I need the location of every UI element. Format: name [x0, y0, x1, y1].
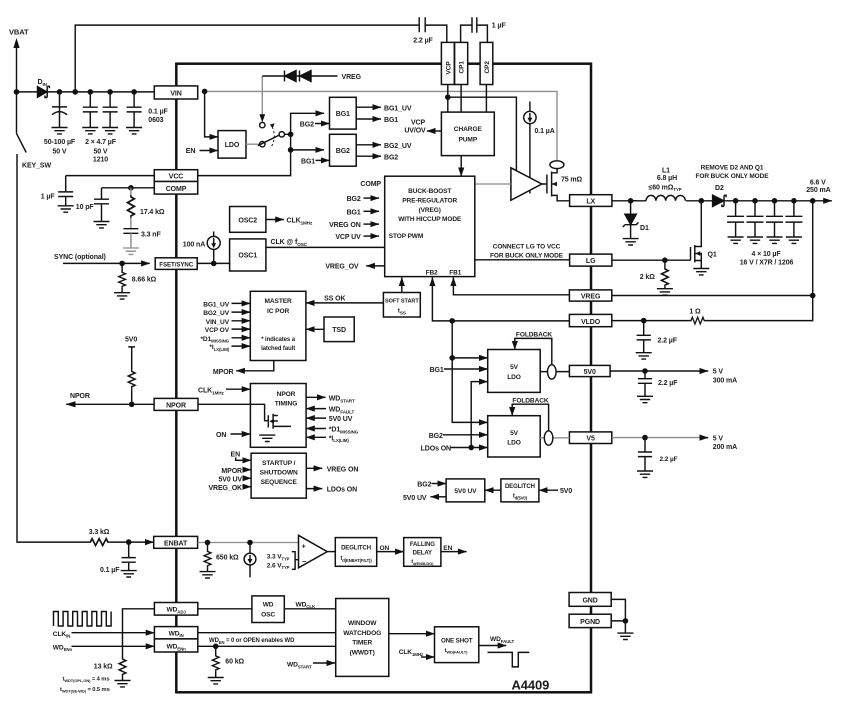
svg-text:VBAT: VBAT: [9, 28, 29, 37]
capacitor 1uF pump: [461, 17, 488, 42]
block SOFT START: [383, 293, 420, 318]
svg-text:BG1: BG1: [301, 158, 315, 165]
svg-text:5 V: 5 V: [713, 435, 724, 442]
svg-text:VCP: VCP: [411, 119, 426, 126]
svg-text:BG2: BG2: [347, 196, 361, 203]
svg-text:PGND: PGND: [580, 619, 600, 626]
wire WD IN to WWDT: [198, 632, 336, 634]
pin box PGND: [569, 614, 611, 627]
wire MPOR output: [236, 361, 274, 371]
wire D1 MISSING input (timing): [306, 428, 326, 430]
svg-text:BG1_UV: BG1_UV: [203, 301, 229, 308]
svg-text:BG1_UV: BG1_UV: [384, 105, 412, 112]
svg-text:VLDO: VLDO: [581, 319, 601, 326]
waveform WD FAULT pulse glyph: [488, 652, 530, 667]
svg-text:LDO: LDO: [507, 440, 521, 447]
svg-text:td(ENBAT(FILT)): td(ENBAT(FILT)): [340, 556, 372, 563]
svg-text:tWDT(OPL,ON) = 4 ms: tWDT(OPL,ON) = 4 ms: [63, 676, 110, 683]
svg-text:ON: ON: [380, 545, 390, 552]
wire foldback loop 1: [515, 338, 552, 364]
svg-text:6.6 V: 6.6 V: [810, 179, 826, 186]
svg-text:PRE-REGULATOR: PRE-REGULATOR: [402, 198, 457, 205]
svg-text:OSC: OSC: [261, 611, 275, 618]
capacitor 1uF VCC: [58, 176, 73, 206]
pin box WD IN: [154, 627, 197, 639]
wire NPOR out: [66, 403, 154, 405]
wire VREG to diodes: [262, 75, 337, 77]
pin box VLDO: [569, 314, 611, 326]
capacitor out 10uF a: [727, 201, 744, 237]
block LDO: [218, 131, 246, 159]
svg-text:SHUTDOWN: SHUTDOWN: [260, 470, 298, 477]
wire VCP to gate driver: [448, 97, 517, 171]
svg-text:COMP: COMP: [166, 186, 187, 193]
svg-text:8.66 kΩ: 8.66 kΩ: [132, 276, 157, 283]
svg-text:EN: EN: [186, 148, 196, 155]
wire VIN sense (gray): [205, 91, 557, 160]
zener diode D1: [625, 201, 636, 225]
switch KEY_SW: [17, 92, 89, 542]
ground (4.7uF a): [82, 128, 98, 134]
ground (bulk cap): [52, 128, 68, 134]
node LG pulldown: [662, 257, 668, 263]
block WD OSC: [252, 596, 284, 623]
svg-text:BG2: BG2: [336, 148, 350, 155]
svg-text:WITH HICCUP MODE: WITH HICCUP MODE: [398, 216, 462, 223]
svg-text:REMOVE D2 AND Q1: REMOVE D2 AND Q1: [701, 164, 764, 171]
wire VREG feed to switch (gray drop): [261, 76, 263, 115]
svg-text:250 mA: 250 mA: [806, 187, 830, 194]
block DEGLITCH (ENBAT): [335, 538, 376, 567]
wire SS OK to master POR: [306, 302, 384, 304]
svg-text:CHARGE: CHARGE: [454, 126, 483, 133]
wire ILX(LIM) input (timing): [306, 436, 326, 438]
ground (VLDO cap): [636, 353, 652, 359]
node comparator source: [247, 540, 253, 546]
svg-text:6.8 µH: 6.8 µH: [657, 175, 677, 182]
svg-text:LDOs ON: LDOs ON: [421, 446, 451, 453]
ground (1uF): [58, 206, 74, 212]
svg-text:FSET/SYNC: FSET/SYNC: [159, 262, 193, 269]
svg-text:ONE SHOT: ONE SHOT: [441, 637, 473, 644]
svg-text:A4409: A4409: [512, 678, 550, 693]
capacitor out 10uF c: [766, 201, 783, 237]
svg-text:5V0 UV: 5V0 UV: [218, 476, 242, 483]
wire supply branch to 5V LDO 1: [452, 357, 488, 359]
pin box NPOR: [154, 398, 198, 410]
ground (3.3nF): [123, 248, 139, 254]
resistor 1 Ohm: [690, 317, 706, 324]
waveform CLK IN glyph: [54, 612, 112, 627]
pin box 5V0: [569, 365, 610, 376]
svg-text:MASTER: MASTER: [264, 298, 292, 305]
svg-text:FB2: FB2: [426, 270, 438, 277]
svg-text:BG1: BG1: [347, 209, 361, 216]
wire 5V 200mA output (gray): [612, 437, 703, 439]
svg-text:200 mA: 200 mA: [713, 444, 737, 451]
svg-text:UV/OV: UV/OV: [404, 128, 426, 135]
svg-text:5V0 UV: 5V0 UV: [329, 416, 353, 423]
svg-text:VREG ON: VREG ON: [329, 222, 361, 229]
svg-text:2 kΩ: 2 kΩ: [640, 274, 655, 281]
node output caps: [733, 198, 816, 204]
ground (2k): [657, 289, 673, 295]
resistor NPOR pullup: [128, 370, 135, 388]
block WWDT: [336, 599, 389, 677]
svg-text:NPOR: NPOR: [70, 393, 90, 400]
capacitor 2.2uF 5V0: [638, 371, 652, 396]
svg-text:0.1 µA: 0.1 µA: [535, 128, 555, 135]
svg-text:−: −: [302, 557, 307, 566]
current source 100nA: [213, 232, 215, 237]
svg-text:TSD: TSD: [332, 327, 346, 334]
block 5V0 UV: [446, 479, 485, 502]
svg-text:60 kΩ: 60 kΩ: [225, 658, 244, 665]
comparator ENBAT: [299, 535, 328, 568]
wire VIN to LDO: [205, 91, 218, 136]
svg-text:SOFT START: SOFT START: [385, 299, 419, 305]
svg-text:SYNC (optional): SYNC (optional): [54, 254, 106, 261]
block BG1: [330, 97, 357, 129]
wire comparator to deglitch: [327, 551, 335, 553]
wire WD ADJ to WD OSC: [198, 608, 252, 610]
svg-text:16 V / X7R / 1206: 16 V / X7R / 1206: [740, 259, 794, 266]
svg-text:5V0 UV: 5V0 UV: [454, 488, 477, 495]
svg-text:L1: L1: [662, 167, 670, 174]
pin box VCC: [154, 170, 197, 182]
pin box GND: [569, 593, 611, 607]
wire SYNC to FSET: [63, 262, 150, 264]
pin box CP1 (vertical): [455, 42, 468, 84]
wire foldback loop 2: [512, 404, 548, 431]
node Q1 drain: [699, 198, 705, 204]
node 60k: [213, 644, 219, 650]
svg-text:tWDT(SE-WD) = 0.5 ms: tWDT(SE-WD) = 0.5 ms: [60, 687, 110, 694]
svg-text:(WWDT): (WWDT): [350, 649, 375, 656]
svg-text:PUMP: PUMP: [458, 137, 477, 144]
wire CLK IN to WD IN: [72, 632, 155, 634]
svg-text:BG2: BG2: [300, 121, 314, 128]
wire switch node to VCC: [198, 150, 291, 176]
block 5V LDO 1: [488, 350, 541, 393]
pin box VREG: [569, 290, 611, 301]
svg-text:NPOR: NPOR: [277, 391, 296, 398]
block NPOR TIMING: [250, 384, 306, 448]
svg-text:td(5V0): td(5V0): [513, 494, 528, 501]
junction dots input rail: [14, 89, 208, 95]
node VLDO cap: [641, 318, 647, 324]
pin box VCP (vertical): [441, 42, 454, 84]
svg-text:BG2: BG2: [384, 154, 398, 161]
node LDOs ON branch: [468, 445, 474, 451]
wire deglitch to 5V0 UV: [485, 489, 501, 491]
block OSC1: [230, 239, 266, 271]
svg-text:75 mΩ: 75 mΩ: [561, 176, 583, 183]
diode DIN: [38, 87, 47, 98]
svg-text:2.2 µF: 2.2 µF: [413, 38, 433, 45]
svg-text:COMP: COMP: [360, 181, 381, 188]
resistor 650k: [207, 543, 209, 551]
block DEGLITCH (5V0): [501, 479, 539, 502]
wire to top bypass rail: [75, 25, 419, 92]
diode VREG switch D a: [285, 71, 297, 82]
sense oval (LDO 1): [548, 365, 557, 379]
switch VREG/LDO select: [260, 122, 265, 127]
node FSET ext: [119, 261, 125, 267]
block ONE SHOT: [435, 627, 479, 663]
wire switch node to BG1: [285, 113, 325, 134]
wire LX to L1: [612, 200, 637, 202]
svg-text:3.3 kΩ: 3.3 kΩ: [89, 529, 110, 536]
svg-text:+: +: [302, 541, 307, 550]
wire LDO 1 output: [540, 371, 569, 373]
svg-text:DELAY: DELAY: [413, 551, 432, 557]
svg-text:1 µF: 1 µF: [41, 193, 56, 200]
capacitor bulk 50-100uF: [52, 92, 67, 128]
svg-text:BG1: BG1: [336, 111, 350, 118]
ground (60k): [208, 678, 224, 684]
ground (650k): [200, 572, 216, 578]
svg-text:2 × 4.7 µF: 2 × 4.7 µF: [85, 139, 117, 146]
svg-text:10 pF: 10 pF: [76, 204, 95, 211]
wire WD ADJ to 13k: [122, 609, 154, 658]
wire LDOs ON into LDO 1: [471, 382, 488, 448]
node LDO supply a: [449, 318, 455, 324]
wire pre-regulator to driver (gray): [475, 183, 511, 185]
svg-text:BG1: BG1: [384, 117, 398, 124]
svg-text:DEGLITCH: DEGLITCH: [341, 546, 371, 552]
svg-text:VREG ON: VREG ON: [327, 466, 359, 473]
svg-text:BG2_UV: BG2_UV: [384, 143, 412, 150]
wire CP1 to charge pump: [460, 85, 462, 113]
wire BG1 arrow into BG2 block: [316, 159, 330, 161]
wire BG2_UV output: [356, 144, 381, 146]
svg-text:MPOR: MPOR: [221, 468, 242, 475]
svg-text:CONNECT LG TO VCC: CONNECT LG TO VCC: [493, 244, 561, 251]
svg-text:0603: 0603: [148, 117, 163, 124]
mosfet (NPOR timing internal): [250, 404, 291, 429]
svg-text:13 kΩ: 13 kΩ: [94, 663, 113, 670]
svg-text:BG1: BG1: [430, 367, 444, 374]
wire VCP UV/OV output: [427, 130, 442, 132]
svg-text:VIN: VIN: [170, 90, 181, 97]
ground (5V0 cap): [637, 396, 653, 402]
svg-text:D2: D2: [715, 185, 724, 192]
ground (0.1uF ENBAT): [121, 571, 137, 577]
svg-text:LDOs ON: LDOs ON: [327, 487, 357, 494]
svg-text:WATCHDOG: WATCHDOG: [343, 630, 381, 637]
ground (4.7uF b): [102, 128, 118, 134]
ground (V5 cap): [637, 471, 653, 477]
pin box LG: [570, 254, 612, 266]
capacitor 2.2uF V5: [638, 438, 652, 471]
svg-text:BG2: BG2: [429, 433, 443, 440]
svg-text:KEY_SW: KEY_SW: [22, 163, 51, 170]
wire BG2 arrow into BG1 block: [315, 123, 330, 125]
svg-text:SS OK: SS OK: [324, 295, 345, 302]
pin box FSET/SYNC: [155, 258, 197, 270]
svg-text:GND: GND: [582, 598, 597, 605]
wire GND tie: [611, 599, 625, 633]
sense oval (LDO 2): [544, 431, 553, 445]
block TSD: [324, 317, 354, 342]
node 650k: [205, 540, 211, 546]
diode VREG switch D b: [300, 71, 312, 82]
wire 5V0 UV output left: [431, 496, 447, 498]
svg-text:BUCK-BOOST: BUCK-BOOST: [408, 188, 451, 195]
capacitor 3.3nF: [130, 218, 132, 228]
inductor L1: [631, 195, 686, 200]
svg-text:BG2: BG2: [417, 481, 431, 488]
svg-text:BG2_UV: BG2_UV: [203, 310, 229, 317]
svg-text:LX: LX: [586, 199, 595, 206]
ground (Q1): [693, 269, 709, 275]
wire WD EN to pin: [72, 645, 155, 647]
wire ENBAT input: [110, 541, 154, 543]
capacitor 2.2uF pump: [419, 17, 447, 42]
wire LDOs ON output: [306, 488, 322, 490]
svg-text:5V0: 5V0: [584, 369, 596, 376]
node GND tie: [623, 618, 629, 624]
capacitor C 0.1uF input: [127, 92, 142, 128]
svg-text:tWD(FAULT): tWD(FAULT): [445, 648, 469, 655]
svg-text:FOR BUCK ONLY MODE: FOR BUCK ONLY MODE: [696, 173, 770, 180]
wire 5V0 UV input (timing): [306, 417, 326, 419]
node 100nA: [211, 261, 217, 267]
svg-text:VREG_OV: VREG_OV: [325, 264, 359, 271]
svg-text:0.1 µF: 0.1 µF: [100, 567, 120, 574]
wire 1 Ohm to rail: [706, 296, 813, 321]
svg-text:ON: ON: [216, 432, 226, 439]
svg-text:OSC2: OSC2: [238, 217, 257, 224]
pin box WD EN: [154, 639, 197, 652]
block BG2: [330, 134, 357, 166]
wire WD FAULT output: [479, 645, 507, 647]
mosfet M1 75mOhm: [542, 169, 570, 201]
wire 6.6V output rail: [724, 200, 832, 202]
wire VLDO to LDO supply: [452, 321, 488, 423]
resistor 8.66k: [121, 263, 123, 271]
svg-text:FB1: FB1: [449, 270, 461, 277]
current source 0.1uA: [529, 102, 531, 112]
svg-text:EN: EN: [231, 451, 241, 458]
svg-text:300 mA: 300 mA: [713, 377, 737, 384]
block FALLING DELAY: [404, 538, 441, 567]
capacitor out 10uF d: [785, 201, 802, 237]
wire BG1 output: [356, 118, 381, 120]
svg-text:100 nA: 100 nA: [183, 241, 205, 248]
svg-text:V5: V5: [586, 436, 595, 443]
svg-text:MPOR: MPOR: [213, 369, 234, 376]
wire WD START output: [306, 396, 326, 398]
svg-text:5V0 UV: 5V0 UV: [403, 495, 427, 502]
wire 5V 300mA output: [610, 370, 708, 372]
wire CLK @ fosc to pre-regulator: [266, 246, 385, 248]
svg-text:VCC: VCC: [169, 174, 184, 181]
svg-text:FOR BUCK ONLY MODE: FOR BUCK ONLY MODE: [490, 253, 564, 260]
node V5 cap: [642, 435, 648, 441]
svg-text:VCP UV: VCP UV: [335, 234, 361, 241]
rail 6.6V vertical: [812, 201, 814, 296]
wire WD EN to WWDT: [198, 645, 336, 647]
svg-text:D1: D1: [640, 225, 649, 232]
wire LDO 2 output (gray): [540, 437, 569, 439]
wire FB2 sense: [432, 277, 569, 321]
resistor 13k: [119, 658, 126, 677]
ground (13k): [115, 681, 131, 687]
svg-text:LDO: LDO: [507, 374, 521, 381]
ground (10pF): [94, 222, 110, 228]
svg-text:VREG: VREG: [581, 294, 601, 301]
svg-text:50-100 µF: 50-100 µF: [44, 139, 76, 146]
node COMP RC: [128, 185, 134, 191]
wire VREG to 6.6V rail: [612, 295, 813, 297]
wire WWDT to one shot: [389, 633, 435, 635]
svg-text:NPOR: NPOR: [166, 402, 186, 409]
svg-text:td(EN5LDO): td(EN5LDO): [411, 559, 434, 566]
VBAT arrow up: [16, 47, 18, 92]
svg-text:5V: 5V: [510, 364, 519, 371]
pin box LX: [570, 195, 612, 207]
resistor 3.3k: [89, 539, 110, 546]
svg-text:4 × 10 µF: 4 × 10 µF: [751, 251, 781, 258]
pin box VIN: [154, 86, 197, 99]
svg-text:FALLING: FALLING: [410, 542, 435, 548]
svg-text:50 V: 50 V: [94, 149, 108, 156]
svg-text:5V: 5V: [510, 430, 519, 437]
ground (10uF c): [767, 237, 783, 243]
svg-text:50 V: 50 V: [53, 149, 67, 156]
node 5V0 cap: [642, 368, 648, 374]
block 5V LDO 2: [488, 416, 541, 457]
pin box CP2 (vertical): [480, 42, 493, 84]
svg-text:FOLDBACK: FOLDBACK: [516, 332, 553, 339]
node VCP: [445, 94, 451, 100]
svg-text:latched fault: latched fault: [261, 346, 295, 352]
wire WD CLK: [284, 608, 335, 610]
svg-text:(VREG): (VREG): [419, 207, 441, 214]
svg-text:CP2: CP2: [484, 61, 491, 74]
ground (8.66k): [114, 293, 130, 299]
svg-text:STARTUP /: STARTUP /: [262, 460, 296, 467]
wire VLDO ext: [612, 320, 690, 322]
block STARTUP/SHUTDOWN SEQUENCE: [251, 453, 306, 498]
svg-text:VCP OV: VCP OV: [205, 327, 230, 334]
node NPOR: [129, 402, 135, 408]
svg-text:CP1: CP1: [459, 61, 466, 74]
svg-text:Q1: Q1: [708, 251, 717, 258]
svg-text:TIMING: TIMING: [275, 401, 297, 408]
svg-text:* indicates a: * indicates a: [261, 337, 295, 343]
wire VCC decoupling: [66, 175, 155, 177]
current source ENBAT: [249, 543, 251, 554]
svg-text:2.2 µF: 2.2 µF: [660, 456, 678, 463]
svg-text:ENBAT: ENBAT: [164, 540, 188, 547]
svg-text:LDO: LDO: [225, 142, 240, 149]
node ENBAT filter: [126, 539, 132, 545]
svg-text:5 V: 5 V: [713, 369, 724, 376]
svg-text:1210: 1210: [93, 157, 108, 164]
gate driver triangle: [511, 168, 542, 201]
pin box WD ADJ: [154, 603, 197, 616]
capacitor out 10uF b: [747, 201, 764, 237]
resistor 2k: [664, 260, 666, 267]
svg-text:5V0: 5V0: [560, 488, 572, 495]
node VREG rail: [810, 293, 816, 299]
wire FSET to OSC1: [197, 262, 229, 264]
pin box COMP: [154, 182, 197, 195]
wire charge pump to pre-regulator: [460, 156, 462, 177]
